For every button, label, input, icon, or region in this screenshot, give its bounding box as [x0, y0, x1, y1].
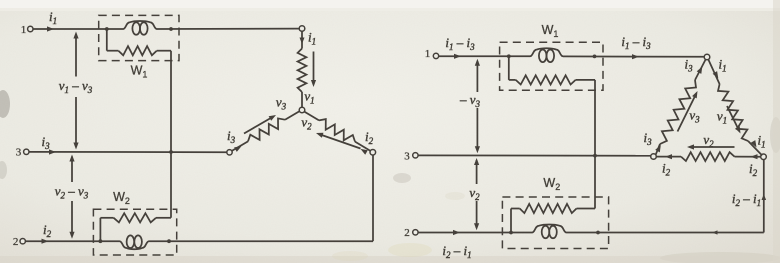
- svg-text:2: 2: [404, 227, 410, 239]
- svg-text:3: 3: [16, 147, 22, 159]
- svg-text:1: 1: [425, 48, 431, 60]
- svg-text:1: 1: [21, 24, 27, 36]
- svg-text:3: 3: [404, 150, 410, 162]
- svg-text:v2 – v3: v2 – v3: [55, 184, 89, 201]
- svg-text:2: 2: [13, 236, 19, 248]
- svg-text:v1 – v3: v1 – v3: [59, 78, 93, 95]
